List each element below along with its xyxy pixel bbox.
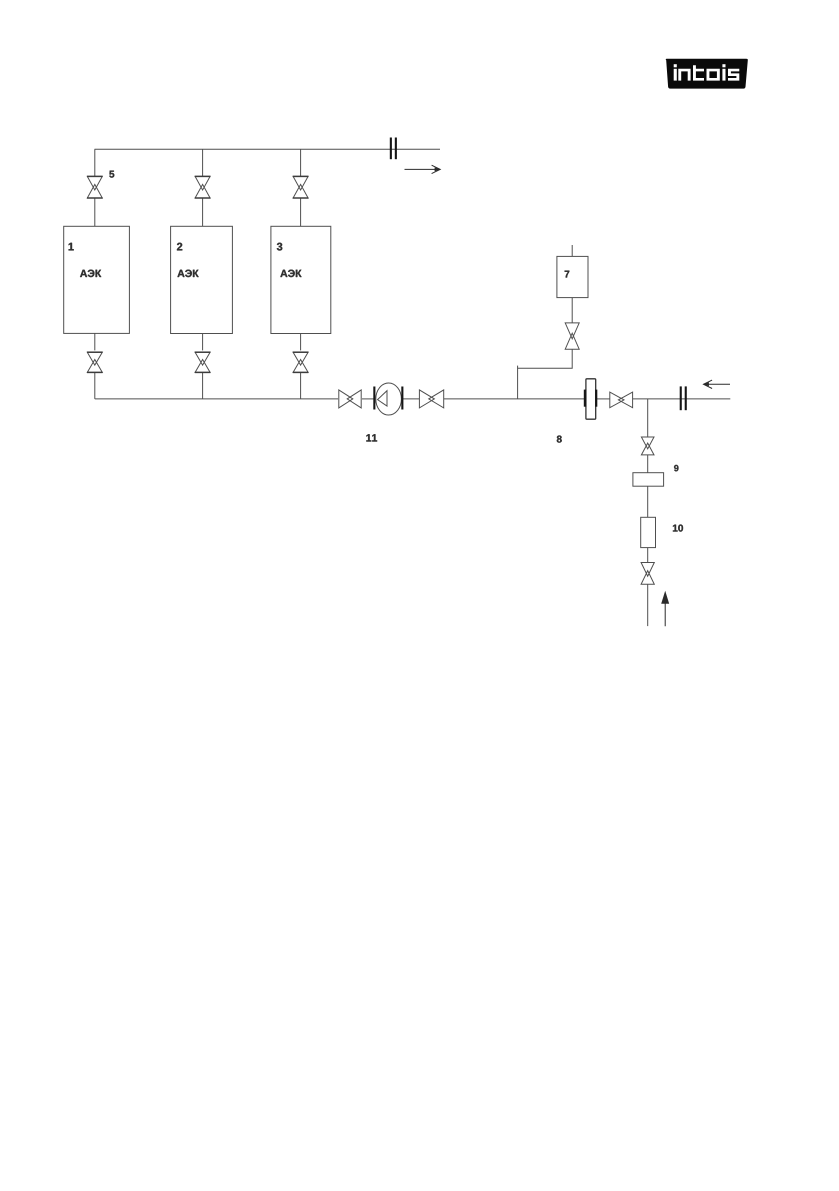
label 11	[366, 434, 377, 441]
logo letter i1 stem	[674, 69, 677, 81]
wire component 8 to valve	[596, 398, 610, 400]
valve left of pump 11	[339, 390, 361, 408]
label 3	[277, 243, 282, 251]
wire drop to valve above vessel 2	[202, 149, 204, 177]
valve below vessel 1	[87, 352, 102, 372]
wire valve3 down to header	[300, 373, 302, 399]
wire stub above box 7	[571, 245, 573, 256]
logo letter s	[728, 69, 739, 81]
component 8 right black bar	[595, 390, 597, 407]
wire bottom inlet	[647, 585, 649, 627]
vessel 2	[171, 226, 233, 333]
logo letter o	[707, 69, 720, 81]
flange break right line	[680, 386, 682, 410]
wire valve to vessel 2	[202, 198, 204, 226]
wire pump to valve	[402, 398, 419, 400]
label AEK vessel 2	[177, 270, 198, 277]
box 10	[641, 517, 656, 547]
logo letter i1 dot	[674, 64, 677, 67]
valve below box 10	[641, 563, 654, 585]
arrow outlet right (top)	[405, 165, 441, 173]
wire vessel2 bottom to valve	[202, 334, 204, 351]
wire valve to box 9	[647, 455, 649, 473]
wire branch down	[647, 399, 649, 437]
logo intois	[666, 59, 748, 89]
wire vessel1 bottom to valve	[94, 333, 96, 350]
label 9	[674, 465, 678, 471]
label 5	[109, 171, 114, 178]
label 8	[557, 436, 562, 443]
label AEK vessel 3	[280, 270, 301, 277]
pump 11 inner triangle	[378, 391, 388, 406]
label 1	[69, 243, 74, 251]
valve below 7	[565, 323, 579, 349]
wire branch riser to 7	[518, 349, 573, 399]
wire valve to box 7	[571, 298, 573, 323]
wire drop to valve above vessel 3	[300, 149, 302, 177]
wire vessel3 bottom to valve	[300, 334, 302, 351]
wire tick at branch corner	[517, 366, 519, 369]
pump 11 circle	[376, 383, 402, 415]
valve 6 right of component 8	[610, 392, 633, 408]
pump 11 left flange bar	[373, 387, 375, 410]
label 2	[177, 243, 182, 251]
valve below vessel 2 bars	[195, 351, 211, 353]
box 7	[557, 256, 588, 297]
label 7	[565, 271, 570, 278]
arrow inlet up (bottom)	[662, 593, 669, 627]
component 8 body	[586, 379, 596, 419]
label AEK vessel 1	[80, 270, 101, 277]
wire main line to component 8	[444, 398, 587, 400]
valve below vessel 3	[293, 352, 308, 372]
logo letter t	[693, 65, 704, 80]
valve above vessel 3 bars	[293, 175, 309, 177]
valve above vessel 2 bars	[195, 175, 211, 177]
valve above vessel 3	[293, 176, 308, 198]
wire valve to vessel 3	[300, 198, 302, 226]
wire valve5 to vessel 1	[94, 198, 96, 226]
wire top manifold	[95, 148, 441, 150]
wire valve1 down to header	[94, 373, 96, 399]
component 8 left black bar	[584, 390, 587, 407]
label 10	[673, 525, 683, 532]
logo letter n	[678, 69, 690, 81]
wire valve to right end	[633, 398, 731, 400]
valve below vessel 3 bars	[293, 351, 309, 353]
pump 11 right flange bar	[401, 387, 403, 410]
valve below vessel 1 bars	[87, 351, 103, 353]
wire box 10 to valve	[647, 548, 649, 563]
logo letter i2 dot	[722, 64, 725, 67]
wire box 9 to box 10	[647, 486, 649, 517]
vessel 1	[64, 226, 130, 333]
arrow inlet left (right side)	[704, 380, 731, 388]
wire drop to valve 5	[94, 149, 96, 177]
wire bottom header	[95, 398, 338, 400]
wire valve to pump	[362, 398, 374, 400]
valve below vessel 2	[195, 352, 210, 372]
valve 5 bars	[87, 175, 103, 177]
valve above box 9	[641, 437, 654, 455]
flange break top manifold	[390, 138, 392, 160]
valve 5	[87, 176, 102, 198]
valve above vessel 2	[195, 176, 210, 198]
valve right of pump 11	[419, 390, 443, 408]
box 9	[633, 473, 664, 487]
wire valve2 down to header	[202, 373, 204, 399]
logo letter i2 stem	[722, 69, 725, 81]
vessel 3	[271, 226, 331, 333]
